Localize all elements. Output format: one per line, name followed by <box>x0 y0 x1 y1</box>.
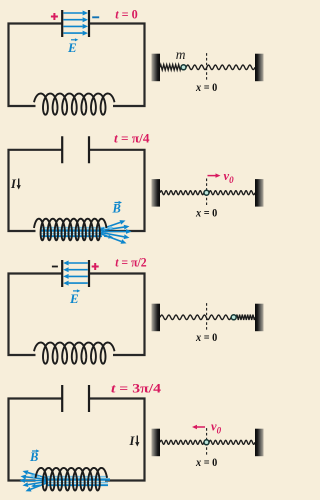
spring left panel 4 <box>160 440 204 444</box>
svg-text:x = 0: x = 0 <box>195 82 218 94</box>
label t2: time annotation <box>114 131 150 146</box>
label t1: time annotation <box>115 6 138 21</box>
label v0 panel 2 <box>224 169 235 185</box>
mass m circle panel 2 <box>204 190 209 195</box>
plus sign panel 1 <box>51 13 58 20</box>
dashed x=0 line panel 3 <box>206 303 208 330</box>
spring right panel 2 <box>209 191 255 195</box>
spring right compressed panel 3 <box>236 315 255 320</box>
label t3: time annotation <box>115 255 147 270</box>
svg-text:t = 0: t = 0 <box>115 6 138 21</box>
mass m circle panel 3 <box>231 315 236 320</box>
wall right panel 3 <box>255 304 264 332</box>
wall right panel 2 <box>255 179 264 207</box>
capacitor C plates panel 3 <box>62 260 89 287</box>
label I current panel 4 <box>129 434 140 448</box>
label x=0 panel 2 <box>195 207 218 219</box>
svg-text:I: I <box>10 177 17 191</box>
svg-text:t = π/4: t = π/4 <box>114 131 150 146</box>
dashed x=0 line panel 4 <box>206 428 208 455</box>
dashed x=0 line panel 2 <box>206 179 208 206</box>
svg-text:I: I <box>129 434 136 448</box>
inductor L coil panel 1 <box>34 94 115 115</box>
capacitor C plates panel 2 <box>62 136 89 163</box>
spring left panel 2 <box>160 191 204 195</box>
label t4: time annotation <box>111 380 162 395</box>
label B vector panel 4 <box>29 449 40 464</box>
spring right stretched panel 1 <box>186 65 255 70</box>
wall left panel 2 <box>152 179 161 207</box>
wire loop panel 1 <box>9 24 145 107</box>
svg-text:t = π/2: t = π/2 <box>115 255 147 270</box>
wall left panel 3 <box>152 304 161 332</box>
svg-text:v0: v0 <box>211 420 222 436</box>
wire loop panel 2 <box>9 150 145 231</box>
label v0 panel 4 <box>211 420 222 436</box>
label E vector panel 3 <box>69 289 80 306</box>
svg-text:t = 3π/4: t = 3π/4 <box>111 380 162 395</box>
minus sign panel 3 <box>52 266 58 268</box>
label I current panel 2 <box>10 177 21 191</box>
label x=0 panel 4 <box>195 457 218 469</box>
svg-text:E: E <box>67 40 77 55</box>
wall left panel 1 <box>152 54 161 81</box>
plus sign panel 3 <box>92 263 99 270</box>
wall right panel 1 <box>255 54 264 81</box>
E field arrows panel 1 <box>63 11 88 36</box>
B field lines and arrows panel 2 <box>40 220 132 244</box>
capacitor C plates panel 1 <box>62 10 89 37</box>
inductor L coil panel 3 <box>34 343 115 364</box>
inductor L coil panel 4 <box>36 468 108 491</box>
E field arrows panel 3 <box>63 261 88 286</box>
svg-text:x = 0: x = 0 <box>195 332 218 344</box>
minus sign panel 1 <box>92 16 99 18</box>
spring right panel 4 <box>209 440 255 444</box>
spring left stretched panel 3 <box>160 315 231 320</box>
v0 velocity arrow panel 2 <box>208 173 221 177</box>
inductor L coil panel 2 <box>34 219 107 241</box>
svg-text:x = 0: x = 0 <box>195 457 218 469</box>
svg-text:x = 0: x = 0 <box>195 207 218 219</box>
label m mass panel 1 <box>176 47 186 62</box>
capacitor C plates panel 4 <box>62 385 89 412</box>
wire loop panel 4 <box>9 399 145 481</box>
svg-text:E: E <box>69 291 79 306</box>
label x=0 panel 3 <box>195 332 218 344</box>
label E vector panel 1 <box>67 38 78 55</box>
dashed x=0 line panel 1 <box>206 53 208 80</box>
wall left panel 4 <box>152 429 161 457</box>
label x=0 panel 1 <box>195 82 218 94</box>
svg-text:v0: v0 <box>224 169 235 185</box>
wall right panel 4 <box>255 429 264 457</box>
B field lines and arrows panel 4 <box>20 470 111 491</box>
label B vector panel 2 <box>112 201 123 216</box>
wire loop panel 3 <box>9 274 145 356</box>
spring left compressed panel 1 <box>160 65 181 70</box>
v0 velocity arrow panel 4 <box>192 425 205 429</box>
svg-text:m: m <box>176 47 186 62</box>
mass m circle panel 1 <box>181 65 186 70</box>
mass m circle panel 4 <box>204 440 209 445</box>
